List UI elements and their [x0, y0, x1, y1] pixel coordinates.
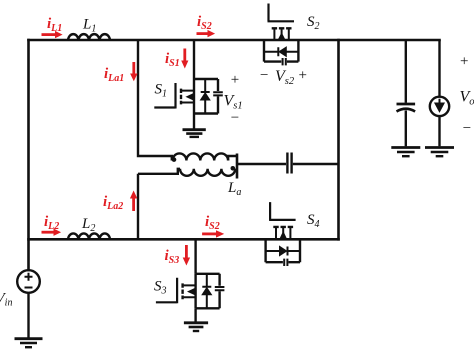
transistor S3 (MOSFET with body diode and capacitor) — [156, 274, 225, 322]
S2 gate lead and gate bar — [268, 4, 295, 22]
La right connection bar — [236, 154, 239, 179]
S2 parasitic capacitor bars — [283, 58, 286, 65]
S4 body diode — [266, 247, 300, 256]
wire capacitor to mid vertical — [293, 163, 339, 165]
S3 drain/source contacts — [184, 285, 196, 297]
polarity dot (La bottom, right) — [231, 166, 236, 171]
current arrow iL1 — [42, 31, 63, 38]
S4 drain/source contacts — [276, 228, 290, 239]
capacitor (series, La branch) — [287, 153, 291, 174]
S1 loop outline — [194, 79, 218, 114]
wire mid-right vertical (S2/S4 junction to rails) — [337, 40, 340, 239]
wire top rail — [29, 39, 440, 42]
Vin bottom wire — [27, 293, 29, 338]
Vin - mark — [25, 287, 33, 289]
load source branch wire — [438, 40, 440, 97]
S4 body arrow — [280, 232, 287, 239]
S3 channel segments — [181, 283, 183, 299]
ground (S1 source) — [183, 130, 206, 137]
S2 body arrow — [278, 33, 285, 40]
svg-text:+: + — [231, 72, 239, 88]
output capacitor Co — [397, 104, 416, 112]
svg-text:+: + — [460, 54, 468, 70]
coupled inductor La bottom winding — [138, 169, 237, 176]
svg-text:+: + — [299, 68, 307, 84]
S1 parasitic capacitor bars — [213, 92, 223, 95]
current arrow iS3 (down) — [183, 245, 190, 266]
S4 gate lead and gate bar — [269, 202, 296, 220]
current arrow iS2 (top) — [197, 30, 216, 37]
node branch wire to La top winding — [138, 40, 172, 161]
S3 loop outline — [196, 274, 220, 309]
S1 gate lead and gate bar — [154, 83, 175, 109]
svg-text:−: − — [463, 121, 471, 137]
svg-text:−: − — [260, 68, 268, 84]
current arrow iLa2 (up) — [130, 191, 137, 212]
ground (Vin) — [15, 339, 43, 348]
output capacitor branch wire — [405, 40, 407, 103]
wire bottom rail — [29, 238, 339, 241]
wire capacitor to ground — [405, 111, 407, 147]
current arrow iLa1 (down) — [130, 62, 137, 81]
transistor S4 (horizontal MOSFET on bottom rail) — [266, 202, 300, 266]
S4 channel segments — [273, 226, 293, 228]
wire La to capacitor — [237, 163, 286, 165]
current arrow iS2 (bottom) — [202, 230, 224, 237]
ground (output capacitor) — [391, 148, 420, 157]
load current source Vo — [430, 97, 449, 116]
wire source to ground — [438, 116, 440, 146]
S1 body diode — [201, 79, 210, 114]
current arrow iL2 — [42, 229, 62, 236]
S1 body arrow — [187, 93, 194, 100]
S3 gate lead and gate bar — [156, 278, 177, 304]
wire left vertical (input) — [27, 40, 30, 270]
S1 channel segments — [180, 89, 182, 105]
inductor L2 — [68, 233, 110, 239]
transistor S3 drain wire — [194, 239, 196, 273]
svg-text:−: − — [231, 110, 239, 126]
Vin + mark — [25, 273, 33, 281]
S2 body diode — [264, 47, 298, 56]
S4 parasitic capacitor bars — [284, 259, 287, 266]
S3 source wire — [194, 308, 196, 321]
S2 loop outline — [264, 40, 298, 62]
transistor S1 (MOSFET with body diode and capacitor) — [154, 79, 223, 129]
ground (load) — [425, 148, 454, 157]
source Vin circle — [17, 270, 40, 337]
S3 body diode — [202, 274, 211, 309]
polarity dot (La top, left) — [172, 157, 177, 162]
wire La2 branch down — [137, 174, 139, 240]
coupled inductor La top winding — [173, 153, 238, 160]
S2 drain/source contacts — [274, 29, 288, 40]
inductor L1 — [68, 34, 110, 40]
S3 body arrow — [188, 288, 195, 295]
S1 drain/source contacts — [182, 91, 194, 103]
transistor S2 (horizontal MOSFET on top rail) — [264, 4, 298, 66]
S2 channel segments — [272, 27, 292, 29]
transistor S1 drain wire — [193, 40, 195, 79]
S3 parasitic capacitor bars — [215, 287, 225, 290]
ground (S3 source) — [184, 323, 208, 331]
current arrow iS1 (down) — [181, 49, 188, 69]
S1 source wire — [193, 114, 195, 129]
S4 loop outline — [266, 239, 300, 262]
